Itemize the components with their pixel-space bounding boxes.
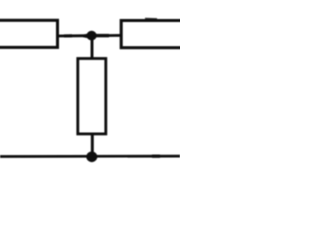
wire smudge on left wire [64, 34, 72, 37]
wire stub from R3 bottom down to node B [91, 133, 94, 154]
wire tick marks on bottom rail [152, 155, 160, 158]
resistor R1 (left series box, clipped at left edge) [0, 20, 58, 47]
wire bottom rail [0, 155, 180, 158]
wire from node A to R2 [95, 34, 122, 37]
wire thick segment near node A [95, 34, 109, 37]
node B (bottom junction dot) [86, 152, 97, 163]
wire from R1 to node A [58, 34, 89, 37]
node A (top junction dot) [87, 31, 97, 41]
wire smudge above R2 top edge [145, 18, 157, 21]
resistor R3 (middle shunt box) [78, 59, 106, 134]
resistor R2 (right series box, clipped at right edge) [121, 21, 186, 48]
wire taper into node A [83, 33, 89, 38]
wire stub from node A down to R3 top [91, 37, 94, 59]
